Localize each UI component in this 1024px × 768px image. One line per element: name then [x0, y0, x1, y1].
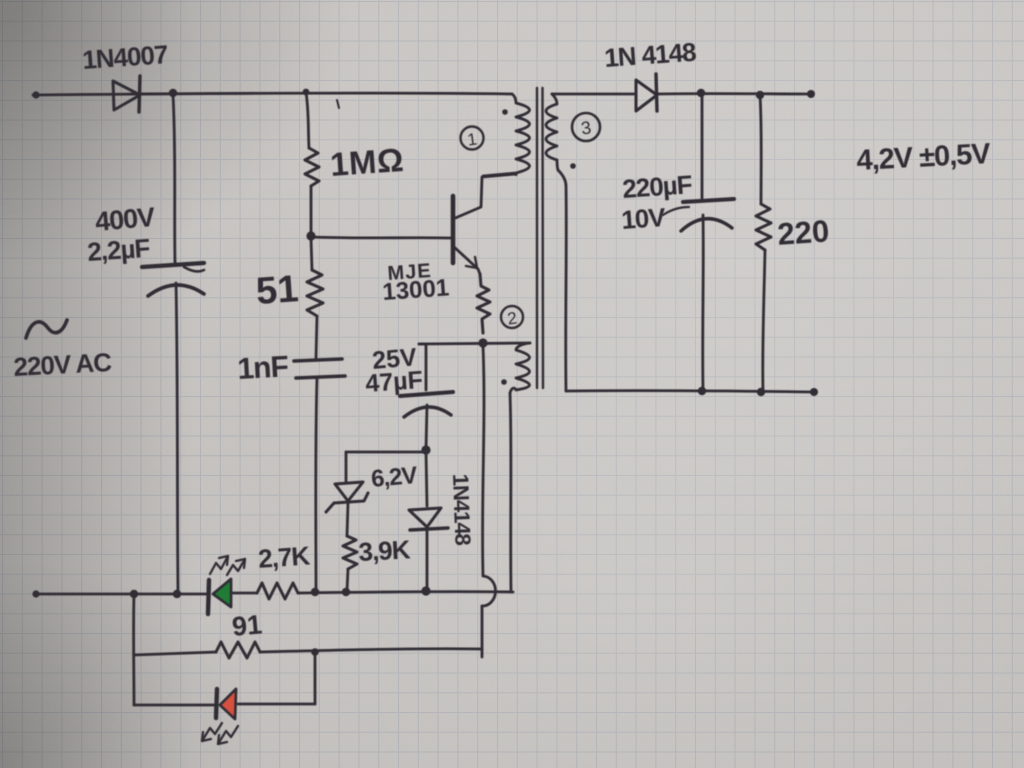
node: output plus terminal	[807, 90, 815, 98]
wire: red LED branch vertical	[314, 652, 317, 704]
wire: 1M to base node	[310, 186, 313, 233]
resistor R4 3,9K	[343, 536, 357, 569]
wire: crossover drop from emitter node	[483, 346, 484, 575]
wire: red LED return rail right	[260, 649, 482, 657]
capacitor C3 47uF 25V	[400, 392, 453, 417]
transistor Q1 collector lead	[453, 174, 516, 219]
wire: crossover to LED return rail	[481, 606, 484, 649]
node: AC input bottom terminal	[32, 590, 39, 597]
stray pen tick	[337, 100, 339, 108]
node: output minus terminal	[810, 388, 818, 396]
resistor R7 91	[216, 642, 260, 658]
node: junction bottom rail / R4	[342, 588, 350, 596]
wire: zener to R4	[347, 503, 348, 536]
wire: output cap lower	[701, 215, 704, 390]
wire: output cap upper	[701, 94, 704, 198]
resistor R3 emitter	[477, 274, 490, 333]
wire: input cap branch lower	[176, 283, 178, 592]
capacitor C2 1nF	[294, 359, 345, 378]
wire: output bottom rail	[566, 391, 814, 392]
wire: emitter node horizontal	[419, 343, 530, 344]
wire: divider to R2	[311, 239, 312, 270]
LED D4 green	[208, 579, 231, 614]
label: winding 2 circled	[501, 306, 523, 329]
node: junction bottom rail / C2	[311, 588, 319, 596]
diode D1 1N4007	[113, 76, 140, 112]
winding 3 secondary	[546, 94, 558, 170]
label pointer: 10V to cap	[663, 207, 689, 215]
resistor R1 1M	[305, 148, 319, 186]
wire: D3 to bottom rail	[426, 530, 429, 591]
label: winding 1 circled	[461, 127, 484, 150]
wire: zener branch vertical	[345, 452, 348, 481]
transistor Q1 MJE13001 base bar	[451, 196, 456, 263]
wire: bottom rail right	[298, 592, 513, 593]
node: winding 3 phase dot	[570, 163, 576, 169]
wire: D3 branch upper	[426, 452, 427, 506]
node: junction return rail / red LED	[311, 648, 319, 656]
diode D2 1N4148 output	[636, 74, 657, 111]
LED D4 emission arrows	[210, 556, 245, 575]
node: junction bottom rail / LED branch	[130, 590, 138, 598]
capacitor C4 220uF 10V	[681, 199, 734, 231]
node: junction output cap top	[697, 89, 705, 97]
wire: output resistor lower	[763, 250, 765, 391]
node: winding 1 phase dot	[502, 109, 508, 115]
zener diode ZD1 6,2V	[326, 482, 368, 512]
node: AC input top terminal	[32, 91, 39, 98]
LED D5 red	[216, 689, 236, 719]
node: winding 2 phase dot	[501, 379, 507, 385]
wire: C2 to bottom rail	[316, 378, 317, 591]
node: junction output resistor bottom	[757, 388, 765, 396]
wire: R4 to bottom rail	[347, 569, 348, 591]
node: junction output cap bottom	[698, 387, 706, 395]
node: junction top rail / input cap	[169, 89, 177, 97]
wire: winding 2 to bottom rail	[510, 393, 511, 592]
winding 1 primary	[483, 94, 530, 176]
node: junction output resistor top	[756, 91, 764, 99]
label: winding 3 circled	[572, 113, 600, 141]
resistor R5 2,7K	[257, 583, 298, 599]
wire: output top rail right	[657, 92, 811, 95]
wire: red LED rail right	[238, 703, 315, 706]
resistor R2 51	[307, 270, 323, 316]
transistor Q1 emitter lead with arrow	[453, 246, 480, 274]
LED D5 emission arrows	[202, 723, 238, 744]
wire: R2 to C2	[316, 316, 317, 358]
resistor R6 220	[756, 204, 771, 250]
wire: zener branch horizontal	[346, 451, 426, 454]
wire: output top rail left	[552, 93, 634, 96]
wire: bottom rail left	[36, 593, 207, 596]
node: junction bottom rail / D3	[421, 586, 430, 595]
wire: AC top rail	[33, 93, 512, 95]
wire: red LED return rail left	[134, 652, 216, 655]
capacitor C1 2,2uF 400V	[142, 263, 204, 296]
wire: bottom rail LED to R5	[233, 592, 257, 595]
node: junction top rail / 1M resistor	[303, 89, 310, 96]
diode D3 1N4148 clamp	[409, 508, 448, 530]
wire: C3 to zener node	[426, 405, 427, 449]
wire: output resistor upper	[760, 95, 761, 204]
AC source symbol	[26, 320, 67, 338]
node: emitter / winding 2 junction	[478, 338, 487, 347]
node: junction bottom rail / input cap	[173, 590, 181, 598]
wire: LED branch left drop	[132, 595, 135, 705]
wire: winding 3 to output bottom rail	[558, 170, 566, 391]
node: zener network junction	[421, 445, 430, 454]
transformer core	[537, 88, 543, 388]
node: base divider junction	[306, 231, 315, 240]
wire: base wire	[313, 237, 451, 238]
wire: red LED rail left	[134, 704, 215, 707]
wire: snubber top from emitter node	[419, 344, 426, 390]
wire: 1M branch from top rail	[306, 92, 309, 148]
wire: crossover hop over bottom rail	[482, 576, 495, 606]
wire: input cap branch upper	[173, 95, 175, 263]
winding 2 feedback	[510, 343, 530, 393]
